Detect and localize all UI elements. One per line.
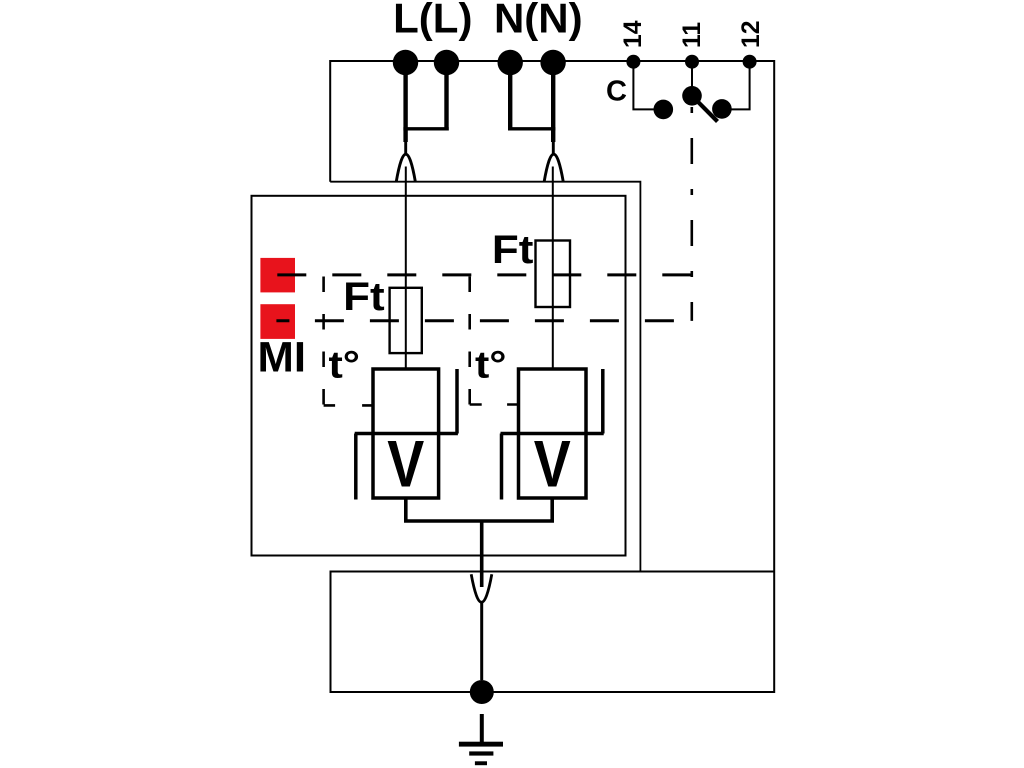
svg-text:t°: t° <box>475 344 507 386</box>
svg-text:C: C <box>606 75 627 107</box>
svg-text:14: 14 <box>620 20 647 48</box>
svg-text:t°: t° <box>329 344 361 386</box>
svg-text:Ft: Ft <box>343 275 385 319</box>
svg-text:12: 12 <box>738 21 765 48</box>
svg-text:N(N): N(N) <box>494 0 583 41</box>
svg-text:11: 11 <box>679 22 706 48</box>
svg-text:V: V <box>534 428 571 501</box>
svg-text:L(L): L(L) <box>393 0 472 41</box>
svg-text:V: V <box>387 428 424 501</box>
svg-text:MI: MI <box>258 334 307 382</box>
svg-text:Ft: Ft <box>492 228 534 272</box>
